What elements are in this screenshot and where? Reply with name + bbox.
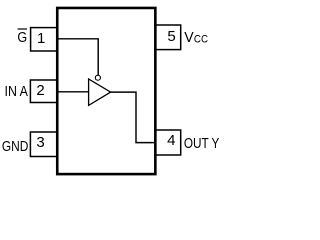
active-low enable bubble	[95, 75, 100, 80]
overline over G	[18, 28, 27, 30]
enable wire from pin 1 to bubble	[57, 39, 98, 75]
svg-text:1: 1	[37, 30, 45, 47]
svg-text:OUT Y: OUT Y	[184, 135, 220, 152]
svg-text:3: 3	[36, 134, 44, 151]
svg-text:2: 2	[36, 82, 44, 99]
svg-text:5: 5	[167, 28, 175, 45]
svg-text:CC: CC	[194, 34, 208, 46]
pin 1 box	[31, 28, 58, 51]
svg-text:IN A: IN A	[5, 83, 28, 100]
svg-text:G: G	[17, 29, 27, 46]
pin 5 box	[155, 25, 180, 50]
output wire from buffer to pin 4	[111, 92, 156, 143]
svg-text:GND: GND	[2, 138, 29, 155]
pin 3 box	[30, 132, 57, 157]
buffer triangle	[89, 79, 111, 105]
input wire from pin 2 to buffer	[57, 91, 88, 93]
IC body (package outline)	[57, 8, 155, 174]
svg-text:4: 4	[167, 132, 175, 149]
pin 4 box	[155, 130, 180, 155]
svg-text:V: V	[184, 29, 193, 46]
pin 2 box	[30, 80, 57, 103]
